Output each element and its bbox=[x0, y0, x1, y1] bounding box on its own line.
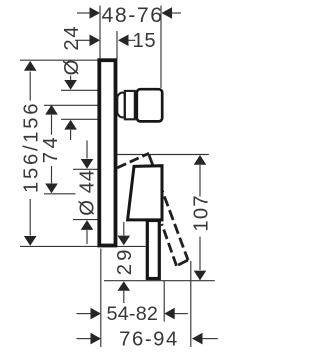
lever bar (solid position) bbox=[147, 221, 159, 279]
white background bbox=[0, 0, 247, 358]
wire: sleeve bottom extension (y=119.3) bbox=[61, 118, 98, 120]
wire: extension line plate face (x=117) bbox=[116, 31, 118, 59]
wire: extension line dashed-lever tip (x=190.8) bbox=[190, 261, 192, 347]
dimension 74 (vertical, x=51.5) bbox=[45, 105, 58, 115]
svg-text:54-82: 54-82 bbox=[107, 303, 159, 325]
wire: extension line bottom left (x=101.8) bbox=[100, 249, 102, 348]
svg-text:76-94: 76-94 bbox=[119, 328, 179, 350]
wire: cartridge centre extension (y=105.3) bbox=[44, 104, 98, 106]
wire: hub top extension (y=169.3) bbox=[73, 168, 98, 170]
dimension 76-94 (bottom row 2, y=338.6) bbox=[77, 338, 92, 340]
dimension 48-76 (top row) bbox=[77, 12, 181, 14]
wire: sleeve top extension (y=90.3) bbox=[61, 89, 98, 91]
svg-text:48-76: 48-76 bbox=[101, 3, 163, 27]
svg-text:156/156: 156/156 bbox=[20, 101, 42, 193]
dimension 15 (second row) bbox=[75, 39, 135, 41]
wire: lever bottom extension (y=280.7) bbox=[104, 280, 215, 282]
dimension 156/156 (vertical, x=30.2) bbox=[24, 61, 37, 71]
cartridge cap bbox=[137, 89, 162, 121]
escutcheon plate (side view) bbox=[99, 60, 115, 245]
wire: plate top extension (y=60.2) bbox=[20, 59, 98, 61]
wire: extension line lever right (x=163.3) bbox=[163, 281, 165, 322]
svg-text:Ø 24: Ø 24 bbox=[61, 25, 83, 76]
svg-text:29: 29 bbox=[114, 246, 136, 275]
wire: plate bottom extension (y=246.4) bbox=[20, 245, 146, 247]
dimension Ø44 (vertical, x=87) bbox=[86, 141, 88, 159]
svg-text:107: 107 bbox=[190, 194, 212, 231]
cartridge sleeve bbox=[125, 91, 135, 119]
wire: hub centre extension (y=193.8) bbox=[44, 193, 76, 195]
handle hub (solid position) bbox=[128, 166, 162, 220]
cartridge neck bbox=[117, 93, 124, 118]
wire: extension line wall/plate back (top, x=100) bbox=[99, 6, 101, 59]
dimension 54-82 (bottom row 1, y=313.6) bbox=[77, 313, 92, 315]
svg-text:74: 74 bbox=[40, 134, 62, 163]
dashed handle (swung position) bbox=[117, 153, 188, 265]
dimension 107 (vertical, x=200.2) bbox=[194, 155, 207, 165]
wire: dashed-handle top extension (y=154.5) bbox=[117, 154, 208, 156]
wire: extension line cap end (x=161) bbox=[160, 6, 162, 89]
dimension 29 (vertical, x=125) bbox=[123, 222, 125, 236]
svg-text:Ø 44: Ø 44 bbox=[77, 169, 99, 215]
svg-text:15: 15 bbox=[133, 30, 157, 52]
wire: hub bottom extension (y=219.6) bbox=[73, 219, 98, 221]
